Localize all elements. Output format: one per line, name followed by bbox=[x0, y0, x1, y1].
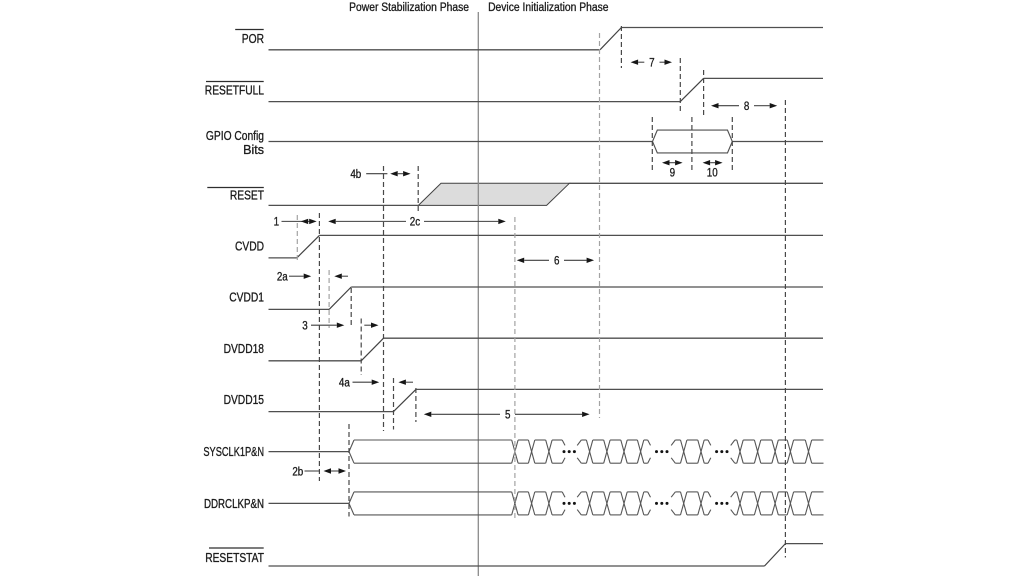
svg-text:9: 9 bbox=[670, 167, 675, 180]
svg-text:3: 3 bbox=[302, 320, 307, 333]
svg-text:RESETFULL: RESETFULL bbox=[205, 85, 264, 98]
svg-text:DDRCLKP&N: DDRCLKP&N bbox=[204, 498, 264, 511]
svg-text:Power Stabilization Phase: Power Stabilization Phase bbox=[349, 1, 469, 14]
svg-text:6: 6 bbox=[554, 255, 559, 268]
svg-text:10: 10 bbox=[707, 167, 718, 180]
svg-text:2b: 2b bbox=[292, 465, 303, 478]
svg-text:DVDD18: DVDD18 bbox=[224, 343, 264, 356]
svg-text:Bits: Bits bbox=[243, 143, 264, 157]
svg-text:4b: 4b bbox=[350, 168, 361, 181]
svg-text:RESET: RESET bbox=[230, 189, 264, 202]
svg-text:POR: POR bbox=[242, 33, 264, 46]
svg-text:5: 5 bbox=[505, 409, 510, 422]
svg-text:SYSCLK1P&N: SYSCLK1P&N bbox=[203, 446, 264, 460]
svg-text:2c: 2c bbox=[410, 216, 421, 229]
svg-text:CVDD: CVDD bbox=[235, 241, 264, 254]
svg-text:DVDD15: DVDD15 bbox=[224, 394, 264, 407]
svg-text:GPIO Config: GPIO Config bbox=[206, 130, 264, 143]
svg-text:8: 8 bbox=[744, 100, 749, 113]
svg-text:2a: 2a bbox=[277, 271, 289, 284]
svg-text:4a: 4a bbox=[339, 376, 351, 389]
svg-text:RESETSTAT: RESETSTAT bbox=[205, 552, 264, 565]
svg-text:1: 1 bbox=[274, 216, 279, 229]
svg-text:Device Initialization Phase: Device Initialization Phase bbox=[488, 1, 608, 14]
svg-text:7: 7 bbox=[649, 57, 654, 70]
svg-text:CVDD1: CVDD1 bbox=[229, 292, 264, 305]
